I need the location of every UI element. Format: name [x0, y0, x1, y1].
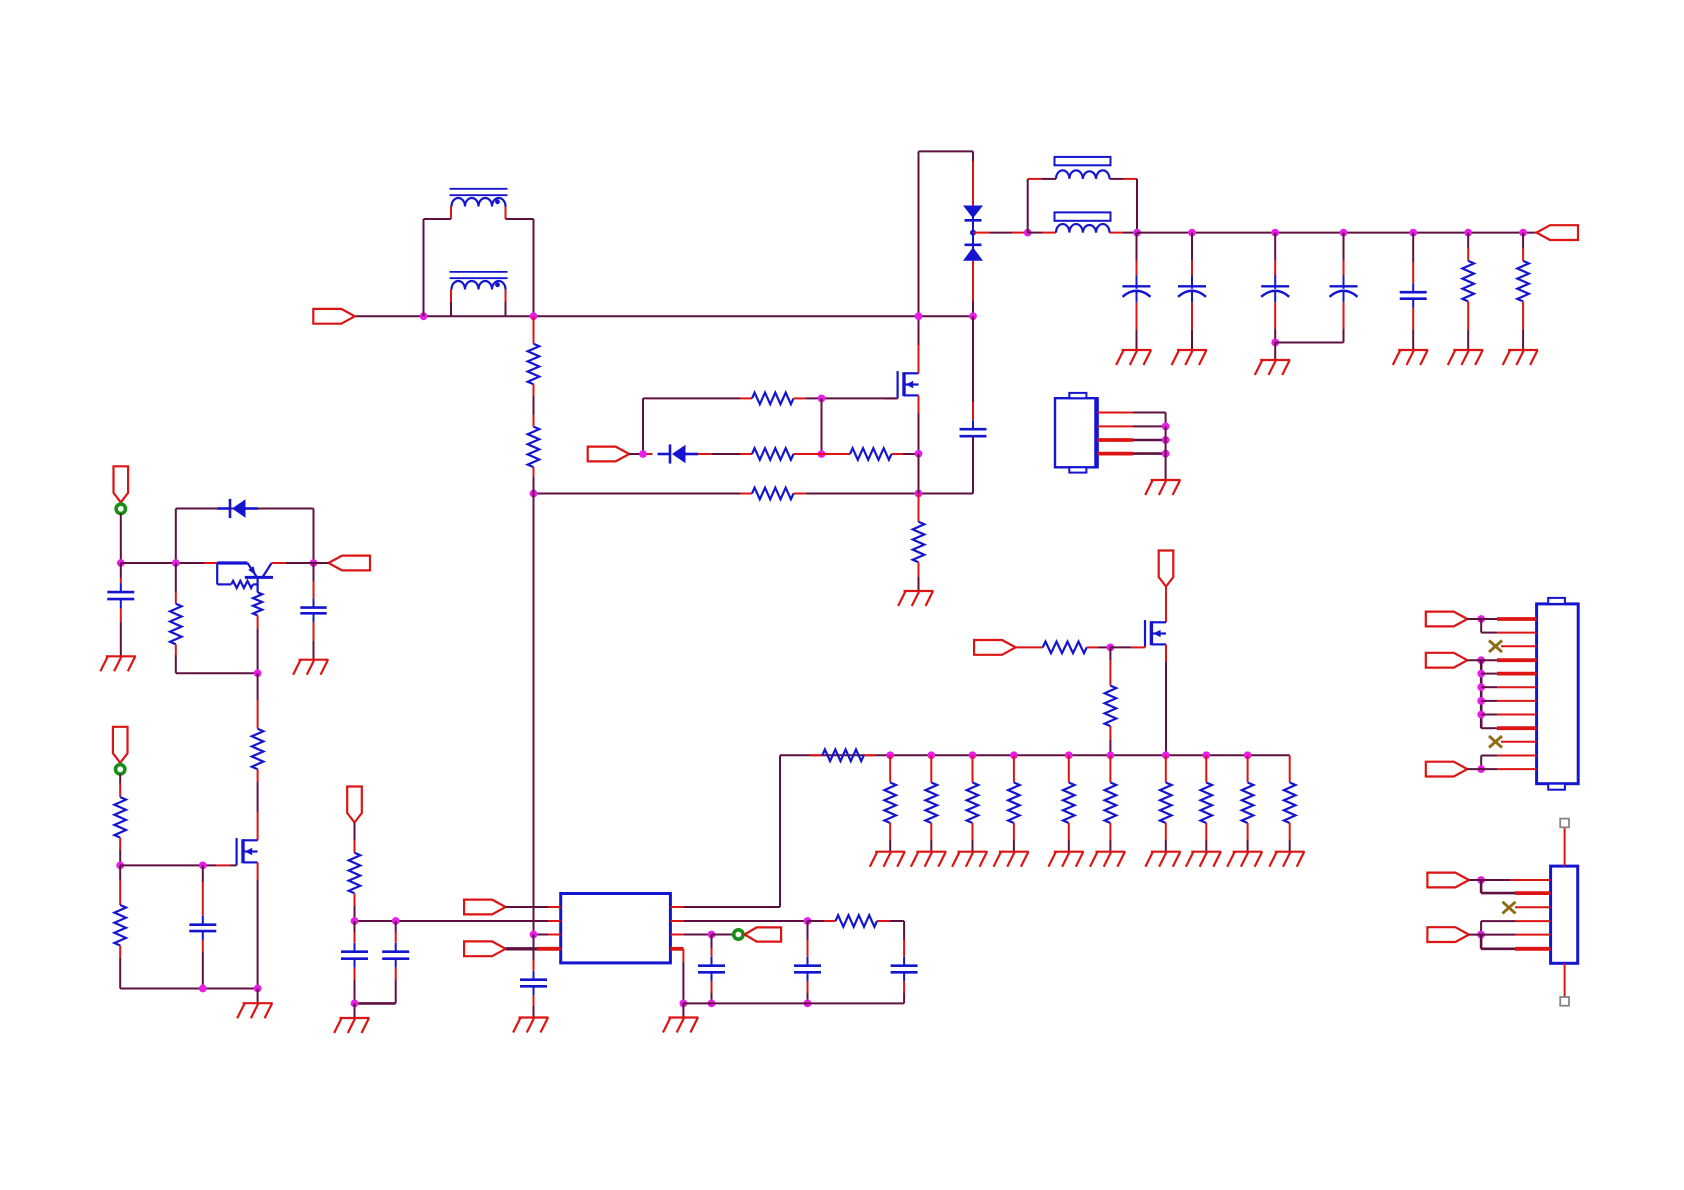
IC U1 body: [561, 894, 671, 963]
wire D3 to R2: [698, 453, 740, 455]
port PB J2: [1426, 653, 1468, 668]
wire C9 lower lead: [903, 981, 905, 1003]
wire R26 bottom lead: [119, 838, 121, 866]
wire C10 upper lead: [533, 935, 535, 971]
wire choke L1 upper loop right: [506, 219, 534, 316]
wire bank R17 bottom lead: [1068, 823, 1070, 852]
wire J3 pin4: [1481, 920, 1551, 922]
capacitor C10: [520, 971, 547, 996]
node U1 pin3 junction: [530, 931, 538, 939]
ring feedback node: [734, 930, 743, 939]
wire Q1 source to lower row: [918, 454, 920, 494]
wire R8 bottom lead: [1467, 301, 1469, 350]
wire PP1 down: [120, 514, 122, 564]
node J1 pin2 junction: [1162, 423, 1170, 431]
ground GND C3: [1172, 350, 1207, 365]
power port PP2: [347, 787, 362, 823]
wire bridge left vertical: [918, 151, 920, 373]
wire C9 branch: [903, 921, 905, 957]
ring PP4 node: [116, 765, 125, 774]
port P2 gate drive: [588, 447, 630, 462]
ground GND bank 10: [1269, 852, 1304, 867]
wire bank R16 bottom lead: [1013, 823, 1015, 852]
wire P4 to R10: [1016, 646, 1043, 648]
wire C11 lower lead: [395, 968, 397, 1004]
wire C1 lower lead: [972, 445, 974, 494]
resistor R12 bank series: [810, 750, 876, 762]
wire bank R22 top lead: [1289, 755, 1291, 782]
wire J3 pin1: [1469, 879, 1551, 881]
port P5 U1 pin1: [464, 900, 506, 915]
resistor R21 bank: [1242, 783, 1254, 824]
node bank junction 6: [1107, 751, 1115, 759]
wire main input net: [355, 315, 973, 317]
node bridge left bottom: [915, 312, 923, 320]
wire left rail row: [121, 562, 217, 564]
wire pin5 down: [682, 949, 684, 1004]
node J2 pin8 junction: [1477, 711, 1485, 719]
capacitor C11: [382, 943, 409, 968]
wire C12 lower lead: [354, 968, 356, 1004]
node U1 pin6 junction: [708, 931, 716, 939]
capacitor C9: [891, 957, 918, 982]
resistor R8 load: [1462, 261, 1474, 302]
power port PP4: [113, 727, 128, 763]
node R1 junction: [818, 395, 826, 403]
wire C4 upper lead: [1274, 233, 1276, 276]
wire R3 to Q1 source: [903, 453, 919, 455]
resistor R19 bank: [1160, 783, 1172, 824]
ground GND bank 6: [1090, 852, 1125, 867]
wire output row: [1137, 232, 1537, 234]
node Q3 collector junction: [310, 559, 318, 567]
mount pad J3 bottom: [1560, 997, 1569, 1006]
resistor R7: [913, 522, 925, 563]
wire J1 pin4: [1098, 452, 1166, 456]
wire bank R17 top lead: [1068, 755, 1070, 782]
wire R2 R3 red link: [806, 453, 838, 455]
node choke output junction: [530, 312, 538, 320]
node bank junction 5: [1065, 751, 1073, 759]
wire R22 right lead: [877, 920, 904, 922]
resistor R27 divider bottom: [114, 905, 126, 946]
wire C7 branch: [711, 935, 713, 957]
ground GND U1: [663, 1018, 698, 1033]
wire J2 pin1 thick: [1467, 618, 1536, 620]
inductor L2 upper winding: [1055, 157, 1111, 179]
node bridge right bottom: [969, 312, 977, 320]
wire gate left vertical: [642, 398, 644, 454]
wire R24 to Q3 base row: [176, 672, 258, 674]
wire bank R21 top lead: [1247, 755, 1249, 782]
capacitor C3 polarized: [1178, 275, 1206, 302]
wire C11-C12 bottom row: [355, 1002, 396, 1005]
node C8 bottom junction: [804, 1000, 812, 1008]
node R23 junction: [351, 917, 359, 925]
resistor R18 bank: [1105, 783, 1117, 824]
wire C5 upper lead: [1343, 233, 1345, 276]
resistor R22 bank: [1284, 783, 1296, 824]
wire bank R19 bottom lead: [1165, 823, 1167, 852]
ground GND Q4: [237, 1003, 272, 1018]
capacitor C2 polarized: [1123, 275, 1151, 302]
wire divider mid: [533, 384, 535, 426]
wire P2 to diode: [629, 453, 652, 455]
wire Q2 source down: [1165, 644, 1167, 755]
wire J2 pin9 thick: [1481, 727, 1536, 729]
node C4 bottom junction: [1271, 339, 1279, 347]
node C12 gnd junction: [351, 1000, 359, 1008]
wire R7 bottom lead: [918, 562, 920, 591]
wire U1 pin8 to bank: [670, 906, 780, 908]
wire C1 upper lead: [972, 316, 974, 420]
wire long vertical net: [533, 494, 535, 935]
resistor R17 bank: [1063, 783, 1075, 824]
wire J3 pin2 thick: [1481, 892, 1551, 895]
wire J2 pin11: [1481, 755, 1536, 757]
wire choke2 upper loop: [1028, 179, 1137, 233]
node left rail junction: [117, 559, 125, 567]
resistor R9 load: [1517, 261, 1529, 302]
wire bank R21 bottom lead: [1247, 823, 1249, 852]
wire top row left vertical: [175, 509, 177, 564]
wire Q4 bottom row: [120, 988, 257, 990]
node U1 pin7 junction: [804, 917, 812, 925]
wire R27 top lead: [119, 865, 121, 905]
wire C11 upper lead: [395, 921, 397, 943]
power port PP1: [114, 466, 129, 502]
wire J2 pin12: [1467, 768, 1536, 770]
transistor Q1 MOSFET: [898, 371, 919, 398]
node PE junction: [1477, 931, 1485, 939]
wire bank row left vertical: [779, 755, 781, 907]
transistor Q3 pre-biased PNP: [217, 563, 313, 615]
power port PP3: [1159, 551, 1174, 587]
node PD junction: [1477, 876, 1485, 884]
wire U1 pin6: [670, 934, 711, 936]
resistor R14 bank: [926, 783, 938, 824]
wire gate top row right: [806, 397, 884, 399]
capacitor C7: [698, 957, 725, 982]
node Q4 gate row left: [116, 862, 124, 870]
wire Q4 gate row: [120, 864, 236, 866]
wire U1 pin5 thick: [670, 947, 683, 951]
port P7 feedback: [745, 927, 782, 941]
resistor R20 bank: [1201, 783, 1213, 824]
resistor R4 pulldown row: [740, 488, 806, 500]
wire J3 bottom mount: [1564, 963, 1566, 997]
inductor L2 lower winding: [1028, 212, 1137, 232]
wire R24 top lead: [175, 563, 177, 604]
wire PE vertical up: [1480, 921, 1482, 935]
ground GND C10: [513, 1018, 548, 1033]
resistor R13 bank: [884, 783, 896, 824]
port PC J2: [1426, 762, 1468, 777]
wire J2 pin2: [1481, 632, 1536, 634]
resistor R22 output: [836, 915, 878, 927]
wire P8 link: [314, 562, 329, 564]
X no-connect J2 pin3: [1489, 641, 1502, 653]
wire divider bottom red: [533, 467, 535, 493]
wire C12 upper lead: [354, 921, 356, 943]
wire C12 gnd lead: [354, 1003, 356, 1018]
ground GND bank 1: [870, 852, 905, 867]
wire J1 ground vertical: [1165, 426, 1167, 480]
transistor Q2 MOSFET: [1145, 620, 1166, 647]
node C11 junction: [392, 917, 400, 925]
wire J1 pin3: [1098, 438, 1166, 442]
node output junction 4: [1340, 229, 1348, 237]
ground GND C14: [293, 660, 328, 675]
resistor R1 gate top: [740, 393, 806, 405]
node Q3 base junction: [254, 669, 262, 677]
port P1 input: [313, 309, 355, 324]
node Q3 emitter junction: [172, 559, 180, 567]
node P2 junction: [639, 450, 647, 458]
node U1 gnd junction: [680, 1000, 688, 1008]
inductor L1 lower winding: [450, 272, 508, 316]
ground GND R8: [1448, 350, 1483, 365]
wire R27 bottom lead: [119, 946, 121, 989]
connector J2 body: [1537, 598, 1579, 790]
resistor R16 bank: [1008, 783, 1020, 824]
node bank junction 3: [969, 751, 977, 759]
inductor L1 upper winding: [450, 189, 508, 219]
node output junction 7: [1519, 229, 1527, 237]
wire U1 pin7: [670, 920, 807, 922]
wire divider top red: [533, 316, 535, 343]
wire Q4 source down: [257, 862, 259, 988]
resistor R10 gate: [1043, 642, 1087, 654]
capacitor C12: [341, 943, 368, 968]
wire U1 pin3: [534, 934, 561, 936]
wire C2 lower lead: [1136, 302, 1138, 350]
diode D2 TVS lower: [963, 245, 983, 261]
wire choke L1 upper loop left: [424, 219, 452, 316]
port PE J3: [1427, 927, 1469, 942]
wire C1 bottom to lower row: [972, 436, 974, 493]
wire C3 lower lead: [1191, 302, 1193, 350]
resistor R26 divider top: [114, 797, 126, 838]
node bank junction 2: [927, 751, 935, 759]
wire bridge top: [919, 150, 974, 152]
ground GND bank 9: [1227, 852, 1262, 867]
node J1 pin4 junction: [1162, 450, 1170, 458]
node PC junction: [1477, 765, 1485, 773]
capacitor C6: [1400, 283, 1427, 308]
resistor R6 divider lower: [528, 427, 540, 468]
wire C2 upper lead: [1136, 233, 1138, 276]
wire bank R22 bottom lead: [1289, 823, 1291, 852]
node bank junction 1: [886, 751, 894, 759]
wire R8 top lead: [1467, 233, 1469, 261]
node C7 bottom junction: [708, 1000, 716, 1008]
wire lower row left: [534, 493, 741, 495]
wire C6 lower lead: [1412, 308, 1414, 351]
node bank junction 4: [1010, 751, 1018, 759]
wire R22 left lead: [808, 920, 836, 922]
ground GND C12: [334, 1018, 369, 1033]
wire U1 pin4 thick: [506, 947, 561, 950]
ground GND J1: [1145, 480, 1180, 495]
node output junction 5: [1409, 229, 1417, 237]
wire J2 pin10: [1501, 741, 1537, 743]
ground GND bank 8: [1186, 852, 1221, 867]
node lower row mid junction: [915, 490, 923, 498]
ground GND bank 3: [952, 852, 987, 867]
wire PA vertical: [1480, 619, 1482, 633]
port P3 output: [1537, 225, 1579, 240]
wire bank R14 top lead: [930, 755, 932, 782]
node J1 pin3 junction: [1162, 436, 1170, 444]
node output junction 2: [1188, 229, 1196, 237]
X no-connect J3 pin3: [1503, 902, 1516, 914]
wire bank R15 top lead: [972, 755, 974, 782]
wire top diode row: [176, 508, 314, 510]
wire C13 upper lead: [120, 563, 122, 583]
wire J2 pin3: [1501, 645, 1537, 647]
wire C15 lower lead: [202, 940, 204, 988]
wire C14 lower lead: [313, 622, 315, 659]
wire bank R20 bottom lead: [1205, 823, 1207, 852]
node output junction 3: [1271, 229, 1279, 237]
ring PP1 node: [116, 504, 125, 513]
node J2 pin7 junction: [1477, 697, 1485, 705]
capacitor C14: [300, 599, 326, 623]
node PB junction: [1477, 656, 1485, 664]
wire R9 bottom lead: [1522, 301, 1524, 350]
node lower row left junction: [530, 490, 538, 498]
capacitor C4 polarized: [1261, 275, 1289, 302]
wire PE vertical down: [1480, 935, 1483, 949]
wire J3 pin5: [1469, 934, 1551, 936]
wire bank R16 top lead: [1013, 755, 1015, 782]
wire gate top row: [643, 397, 898, 399]
wire PD vertical: [1480, 880, 1483, 893]
wire C15 upper lead: [202, 865, 204, 915]
port P8 regulator output: [329, 556, 371, 571]
node Q4 gate cap junction: [199, 862, 207, 870]
connector J1 body: [1055, 393, 1098, 473]
port PD J3: [1427, 873, 1469, 888]
wire J1 pin2: [1098, 425, 1166, 427]
wire C7 lower lead: [711, 981, 713, 1003]
ground GND bank 4: [994, 852, 1029, 867]
wire J1 pin1: [1098, 413, 1166, 427]
node choke2 left junction: [1024, 229, 1032, 237]
wire J3 pin3: [1515, 906, 1551, 908]
wire PP2 down: [354, 823, 356, 853]
X no-connect J2 pin10: [1489, 736, 1502, 748]
wire PP4 down: [119, 774, 121, 797]
capacitor C8: [794, 957, 821, 982]
resistor R15 bank: [967, 783, 979, 824]
ground GND C6: [1393, 350, 1428, 365]
resistor R2 gate mid: [740, 448, 806, 460]
wire bank R20 top lead: [1205, 755, 1207, 782]
wire bank row: [780, 754, 1290, 756]
wire C6 upper lead: [1412, 233, 1414, 283]
node PA junction: [1477, 615, 1485, 623]
wire U1 pin2 long: [355, 920, 561, 922]
wire R24 bottom lead: [175, 644, 177, 673]
wire J2 pin4 thick: [1467, 659, 1536, 661]
wire C8 branch: [807, 921, 809, 957]
wire R23 bottom lead: [354, 893, 356, 921]
mount pad J3 top: [1560, 819, 1569, 828]
wire R11 bottom lead: [1109, 726, 1111, 755]
transistor Q4 MOSFET: [237, 838, 258, 865]
wire Q4 gnd lead: [257, 989, 259, 1004]
wire bank R18 top lead: [1109, 755, 1111, 782]
wire pin6 to ring: [712, 934, 734, 936]
wire J3 pin6 thick: [1481, 947, 1551, 950]
ground GND bank 7: [1145, 852, 1180, 867]
node choke2 right junction: [1133, 229, 1141, 237]
capacitor C5 polarized: [1330, 275, 1358, 302]
node bank junction 7: [1162, 751, 1170, 759]
capacitor C15: [189, 916, 216, 940]
wire U1 gnd lead: [682, 1003, 684, 1017]
wire Q1 source down: [918, 395, 920, 453]
wire R10 to junction: [1087, 646, 1111, 648]
wire Q3 base down: [257, 615, 259, 673]
wire J2 pin5 thick: [1481, 673, 1536, 675]
wire bank R13 bottom lead: [889, 823, 891, 852]
wire J2 pin8: [1481, 714, 1536, 716]
wire PC vertical: [1480, 756, 1482, 770]
wire C5 lower lead: [1343, 302, 1345, 342]
ground GND bank 5: [1048, 852, 1083, 867]
wire C13 lower lead: [120, 608, 122, 656]
wire R7 top lead: [918, 494, 920, 522]
wire C10 lower lead: [533, 995, 535, 1017]
wire J2 pin6: [1481, 686, 1536, 688]
capacitor C1: [960, 420, 987, 445]
wire C4 gnd link: [1274, 343, 1276, 361]
ground GND bank 2: [911, 852, 946, 867]
wire TVS top lead: [972, 151, 974, 205]
diode D3 gate: [658, 444, 699, 463]
wire C4 lower lead: [1274, 302, 1276, 342]
wire top row right vertical: [313, 509, 315, 564]
ground GND C4: [1255, 360, 1290, 375]
wire TVS node to choke2: [973, 232, 1028, 234]
node R2-R3 junction: [818, 450, 826, 458]
wire R9 top lead: [1522, 233, 1524, 261]
wire J2 pin7: [1481, 700, 1536, 702]
ground GND R9: [1503, 350, 1538, 365]
resistor R3 gate series: [838, 448, 903, 460]
wire U1 pin1: [506, 906, 561, 908]
wire R25 to Q4 drain: [257, 769, 259, 840]
node Q2 gate junction: [1107, 644, 1115, 652]
capacitor C13: [107, 583, 134, 608]
node output junction 6: [1464, 229, 1472, 237]
wire bank R18 bottom lead: [1109, 823, 1111, 852]
resistor R11 gate pulldown: [1105, 686, 1117, 727]
node J2 pin6 junction: [1477, 683, 1485, 691]
wire C4-C5 bottom link: [1275, 342, 1343, 344]
node bank junction 8: [1202, 751, 1210, 759]
port PA J2: [1426, 612, 1468, 627]
resistor R5 divider upper: [528, 344, 540, 385]
wire Q1 gate red stub: [884, 397, 898, 399]
wire Q4 drain net upper: [257, 673, 259, 729]
resistor R25 drain series: [252, 729, 264, 770]
wire bank R15 bottom lead: [972, 823, 974, 852]
node TVS midpoint: [970, 230, 976, 236]
